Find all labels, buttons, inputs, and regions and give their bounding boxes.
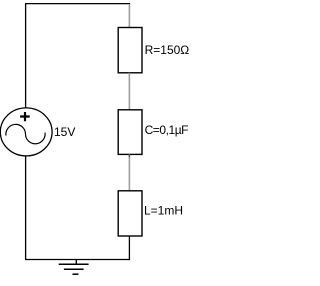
ground bar 3 (73, 273, 79, 275)
wire right vertical (inductor to bottom wire) (128, 236, 130, 260)
ground bar 2 (64, 268, 84, 270)
wire bottom horizontal (25, 259, 130, 261)
wire left vertical (source bottom to bottom wire) (25, 156, 27, 260)
svg-text:R=150Ω: R=150Ω (145, 43, 190, 57)
resistor R (118, 28, 142, 73)
ground stub (75, 260, 77, 265)
wire left vertical (top wire to source top) (25, 4, 27, 109)
inductor L (118, 191, 142, 236)
wire gray vertical (resistor to capacitor) (128, 73, 130, 110)
wire gray vertical (capacitor to inductor) (128, 154, 130, 190)
svg-text:L=1mH: L=1mH (144, 203, 183, 217)
wire top horizontal (25, 3, 130, 5)
AC source V1 plus sign (20, 112, 30, 121)
wire stub below capacitor (128, 155, 130, 157)
svg-text:C=0,1µF: C=0,1µF (145, 123, 189, 137)
capacitor C (118, 110, 142, 155)
ground bar 1 (59, 263, 89, 265)
wire gray vertical (top wire to resistor) (128, 4, 130, 27)
AC source V1 circle (0, 108, 52, 156)
svg-text:15V: 15V (54, 125, 75, 139)
AC source V1 sine wave (6, 124, 45, 143)
